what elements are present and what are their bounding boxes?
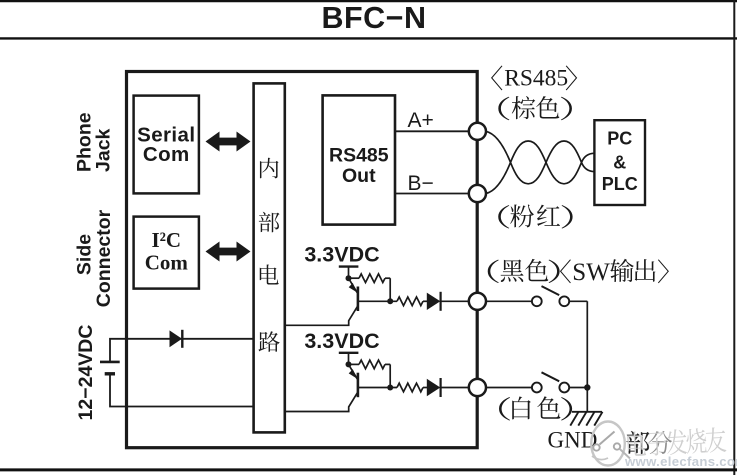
- wire diode to terminal 2: [441, 387, 470, 389]
- node 3.3VDC rail 1: [339, 265, 359, 267]
- block RS485 Out: [323, 95, 395, 224]
- svg-text:3.3VDC: 3.3VDC: [304, 329, 379, 353]
- bus arrow: Serial Com to internal circuit: [206, 132, 251, 152]
- watermark logo circle: [591, 422, 630, 466]
- wire switch to common 1: [569, 300, 587, 302]
- wire: title underline: [0, 37, 737, 39]
- resistor R1b (series): [397, 297, 423, 306]
- svg-text:SW: SW: [572, 259, 610, 286]
- wire terminal to switch 2: [486, 387, 532, 389]
- wire base line 2: [359, 387, 398, 389]
- block internal circuit (nei bu dian lu): [254, 83, 285, 432]
- diode D1 (input protection): [170, 330, 183, 347]
- switch SW1 left contact: [532, 296, 542, 306]
- junction dot (base node) 2: [387, 385, 393, 391]
- wire: -V return from battery to internal circuit: [110, 374, 254, 407]
- wire A+ from RS485 Out to terminal: [395, 130, 470, 132]
- terminal SW2: [469, 379, 486, 396]
- module outline U1 BFC-N unit: [127, 72, 478, 448]
- resistor R2b (series): [397, 383, 423, 392]
- svg-text:&: &: [613, 153, 626, 173]
- label (heise) black + <SW output>: [488, 260, 499, 283]
- wire twisted pair A: [486, 131, 595, 184]
- svg-text:A+: A+: [408, 109, 434, 132]
- block PC & PLC: [594, 120, 645, 205]
- wire B- from RS485 Out to terminal: [395, 193, 470, 195]
- switch SW1 right contact: [559, 296, 569, 306]
- junction dot (emitter node) 1: [346, 275, 352, 281]
- svg-text:PC: PC: [607, 128, 632, 148]
- switch SW2 left contact: [532, 383, 542, 393]
- resistor R1a (pull-up): [349, 277, 360, 279]
- battery BT1 12-24VDC positive plate: [100, 361, 120, 364]
- bus arrow: I2C Com to internal circuit: [206, 242, 251, 262]
- svg-text:www.elecfans.com: www.elecfans.com: [624, 454, 737, 469]
- battery BT1 negative plate: [105, 372, 115, 375]
- label (baise) white: [499, 397, 510, 420]
- svg-text:Out: Out: [342, 165, 376, 187]
- node 3.3VDC rail 2: [339, 352, 359, 354]
- svg-text:RS485: RS485: [504, 65, 568, 91]
- wire: page bottom border line: [0, 468, 737, 471]
- wire resistor to base node 1: [389, 278, 391, 301]
- svg-text:3.3VDC: 3.3VDC: [304, 243, 379, 267]
- svg-text:RS485: RS485: [329, 145, 389, 167]
- wire to ground: [586, 388, 588, 412]
- junction dot common/ground: [584, 384, 590, 390]
- terminal A+: [469, 123, 486, 140]
- watermark text dianzifashaoyou: [627, 427, 727, 458]
- label (fenhong) pink: [498, 205, 509, 228]
- svg-text:12−24VDC: 12−24VDC: [75, 325, 97, 421]
- svg-text:Com: Com: [145, 251, 189, 275]
- switch SW2 right contact: [559, 383, 569, 393]
- svg-text:Jack: Jack: [93, 128, 115, 172]
- svg-text:GND: GND: [548, 428, 598, 453]
- wire collector to internal circuit 1: [285, 306, 358, 326]
- svg-text:Com: Com: [143, 143, 190, 166]
- resistor R2a (pull-up): [349, 363, 360, 365]
- label 部: [259, 212, 280, 233]
- label 内: [260, 158, 279, 179]
- wire: page right border line: [733, 0, 735, 475]
- svg-text:B−: B−: [408, 172, 434, 195]
- svg-text:I²C: I²C: [151, 228, 181, 252]
- wire: page top border line: [0, 0, 737, 2]
- wire collector to internal circuit 2: [285, 392, 358, 412]
- label Phone Jack (rotated): [74, 112, 115, 172]
- wire: +V input from battery to internal circuit: [110, 339, 254, 361]
- label <RS485>: [491, 65, 502, 90]
- label (zongse) brown: [498, 97, 509, 120]
- wire base line 1: [359, 300, 398, 302]
- junction dot (emitter node) 2: [346, 361, 352, 367]
- label 路: [259, 331, 280, 352]
- svg-text:Connector: Connector: [93, 209, 115, 307]
- block Serial Com (Phone Jack interface): [134, 96, 199, 194]
- transistor Q2 (PNP): [357, 373, 360, 398]
- transistor Q1 (PNP): [357, 287, 360, 312]
- wire diode to terminal 1: [441, 300, 470, 302]
- switch SW2 blade: [542, 372, 560, 381]
- wire terminal to switch 1: [486, 300, 532, 302]
- terminal B-: [469, 185, 486, 202]
- svg-text:BFC−N: BFC−N: [321, 1, 426, 35]
- label Side Connector (rotated): [74, 209, 116, 307]
- diode D3 (output): [427, 379, 441, 396]
- wire common vertical: [586, 301, 588, 387]
- ground symbol: [570, 412, 602, 426]
- junction dot (base node) 1: [387, 298, 393, 304]
- diode D2 (output): [427, 293, 441, 310]
- switch SW1 blade: [542, 286, 560, 295]
- terminal SW1: [469, 293, 486, 310]
- svg-text:PLC: PLC: [602, 174, 638, 194]
- wire resistor to base node 2: [389, 364, 391, 387]
- wire twisted pair B: [486, 141, 595, 194]
- label 电: [260, 264, 279, 284]
- block I2C Com (Side Connector interface): [134, 217, 199, 289]
- wire switch to common 2: [569, 387, 587, 389]
